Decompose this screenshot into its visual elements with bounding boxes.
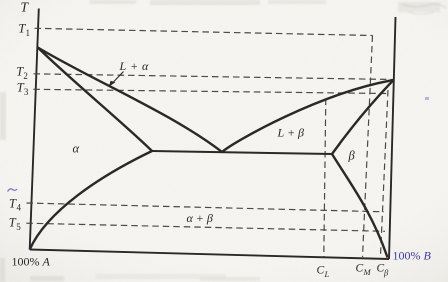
svg-text:100% B: 100% B	[393, 249, 432, 263]
solvus (alpha side)	[30, 151, 152, 250]
dashed composition line CM	[363, 36, 373, 258]
dashed isotherm T4	[27, 203, 385, 212]
liquidus (A side)	[38, 48, 222, 153]
svg-text:β: β	[383, 268, 389, 278]
composition axis (bottom horizontal)	[30, 250, 389, 260]
svg-text:100% A: 100% A	[12, 255, 51, 269]
svg-text:2: 2	[23, 71, 28, 81]
svg-text:α + β: α + β	[187, 211, 213, 225]
solidus (B side)	[332, 80, 394, 154]
T axis (left vertical)	[30, 9, 39, 250]
svg-text:C: C	[356, 263, 364, 275]
dashed composition line CL	[324, 99, 326, 257]
dashed isotherm T3	[33, 89, 387, 93]
tiny blue specks	[8, 189, 18, 192]
leader arrow	[112, 72, 124, 85]
B axis (right vertical)	[389, 17, 396, 259]
dashed isotherm T2	[34, 74, 394, 80]
svg-text:L + β: L + β	[277, 126, 305, 140]
svg-text:C: C	[317, 265, 325, 277]
svg-text:1: 1	[26, 28, 31, 38]
solvus (beta side)	[332, 154, 388, 258]
solidus (A side)	[38, 48, 152, 152]
svg-text:M: M	[363, 267, 372, 277]
svg-text:4: 4	[17, 203, 22, 213]
svg-text:L: L	[324, 269, 330, 279]
eutectic isotherm line	[152, 151, 332, 154]
liquidus (B side)	[222, 80, 394, 152]
dashed isotherm T5	[26, 223, 385, 231]
svg-text:α: α	[73, 142, 80, 156]
dashed isotherm T1	[35, 28, 373, 35]
svg-text:β: β	[348, 149, 356, 163]
svg-text:L + α: L + α	[119, 59, 150, 73]
svg-text:5: 5	[16, 222, 21, 232]
svg-text:3: 3	[24, 87, 29, 97]
dashed composition line Cbeta	[381, 90, 389, 256]
